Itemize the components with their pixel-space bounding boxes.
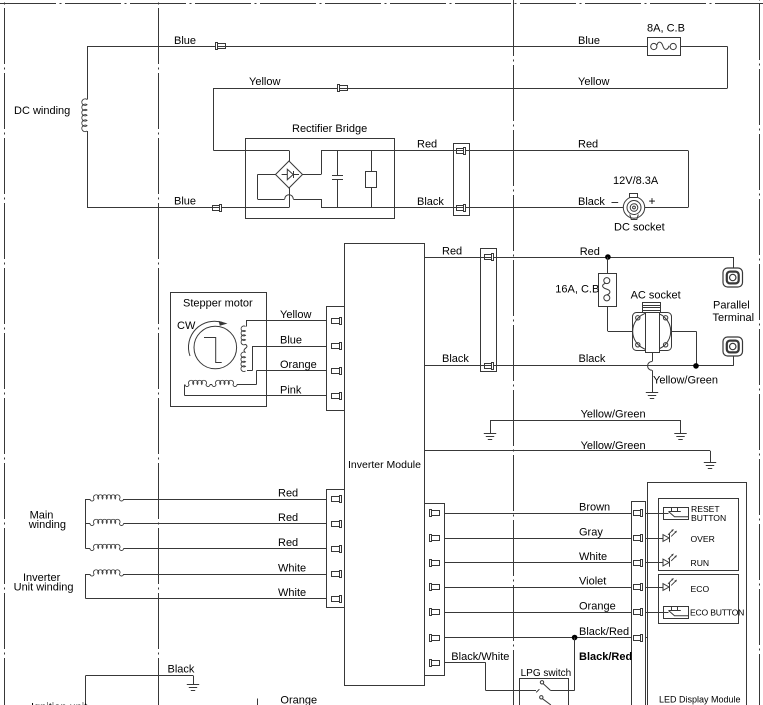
svg-text:Terminal: Terminal: [713, 312, 755, 324]
svg-text:White: White: [278, 563, 306, 575]
svg-text:Unit winding: Unit winding: [14, 582, 74, 594]
svg-text:Brown: Brown: [579, 502, 610, 514]
svg-text:Red: Red: [442, 246, 462, 258]
svg-text:12V/8.3A: 12V/8.3A: [613, 175, 659, 187]
svg-text:Orange: Orange: [280, 695, 317, 705]
svg-text:Black/White: Black/White: [451, 651, 509, 663]
svg-text:+: +: [649, 194, 656, 208]
svg-text:Orange: Orange: [280, 359, 317, 371]
svg-text:Red: Red: [278, 488, 298, 500]
svg-text:Inverter Module: Inverter Module: [348, 459, 421, 471]
svg-text:Red: Red: [417, 139, 437, 151]
svg-text:OVER: OVER: [691, 534, 715, 544]
svg-text:LED Display Module: LED Display Module: [659, 694, 741, 704]
svg-text:Black: Black: [417, 196, 444, 208]
svg-text:CW: CW: [177, 320, 196, 332]
svg-text:Blue: Blue: [174, 35, 196, 47]
svg-text:Red: Red: [278, 512, 298, 524]
svg-text:Ignition unit: Ignition unit: [31, 702, 87, 705]
svg-text:Yellow: Yellow: [578, 76, 609, 88]
svg-text:Blue: Blue: [174, 196, 196, 208]
svg-text:8A, C.B: 8A, C.B: [647, 23, 685, 35]
svg-text:White: White: [579, 551, 607, 563]
svg-text:Pink: Pink: [280, 385, 302, 397]
svg-text:DC socket: DC socket: [614, 222, 665, 234]
svg-text:Parallel: Parallel: [713, 300, 750, 312]
svg-text:LPG switch: LPG switch: [521, 668, 572, 679]
svg-text:ECO BUTTON: ECO BUTTON: [690, 608, 744, 618]
svg-text:Red: Red: [278, 537, 298, 549]
svg-text:Yellow/Green: Yellow/Green: [581, 440, 646, 452]
svg-text:Yellow: Yellow: [280, 309, 311, 321]
svg-text:ECO: ECO: [691, 584, 710, 594]
svg-text:Blue: Blue: [280, 335, 302, 347]
svg-text:Black: Black: [579, 353, 606, 365]
svg-text:RUN: RUN: [691, 558, 710, 568]
svg-text:White: White: [278, 587, 306, 599]
svg-text:Black/Red: Black/Red: [579, 626, 629, 638]
svg-text:Blue: Blue: [578, 35, 600, 47]
svg-text:Gray: Gray: [579, 527, 603, 539]
svg-text:Black/Red: Black/Red: [579, 651, 632, 663]
svg-text:Orange: Orange: [579, 601, 616, 613]
svg-text:Yellow/Green: Yellow/Green: [653, 375, 718, 387]
svg-text:BUTTON: BUTTON: [691, 513, 726, 523]
svg-text:Black: Black: [578, 196, 605, 208]
svg-text:Red: Red: [578, 139, 598, 151]
svg-text:Black: Black: [168, 664, 195, 676]
svg-text:Yellow/Green: Yellow/Green: [581, 409, 646, 421]
svg-text:Black: Black: [442, 353, 469, 365]
svg-text:Stepper motor: Stepper motor: [183, 298, 253, 310]
svg-text:Red: Red: [580, 246, 600, 258]
svg-text:Rectifier Bridge: Rectifier Bridge: [292, 123, 367, 135]
svg-text:16A, C.B: 16A, C.B: [555, 284, 599, 296]
svg-text:–: –: [612, 195, 619, 209]
svg-text:Yellow: Yellow: [249, 76, 280, 88]
svg-text:Violet: Violet: [579, 576, 606, 588]
svg-text:AC socket: AC socket: [631, 290, 681, 302]
svg-text:winding: winding: [28, 519, 66, 531]
svg-text:DC winding: DC winding: [14, 105, 70, 117]
